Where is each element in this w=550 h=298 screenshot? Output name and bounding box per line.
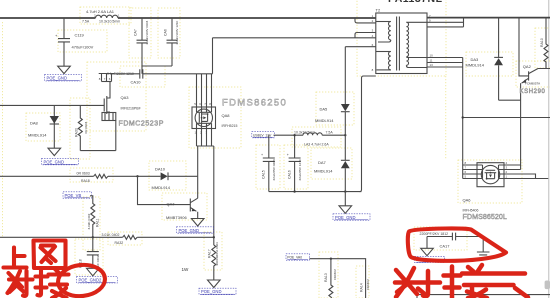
capacitor CA7 [134, 18, 150, 66]
svg-text:POE_VA0: POE_VA0 [287, 256, 302, 260]
wire transformer pin2 stub [355, 18, 376, 23]
wire bottom sheet edge [417, 295, 550, 298]
svg-text:22uF/25V 1210: 22uF/25V 1210 [298, 159, 302, 180]
svg-text:IRFH5215: IRFH5215 [222, 124, 238, 128]
wire QA8 source to RA17 [213, 146, 215, 245]
wire main top rail [0, 17, 96, 19]
wire CA7 CA6 join [142, 66, 172, 74]
resistor RA13 [324, 259, 337, 298]
region outline left dashed divider [2, 22, 4, 238]
svg-text:CA15: CA15 [262, 170, 266, 179]
diode DA3 box [466, 52, 513, 76]
svg-text:4.7uH 2.6A LA1: 4.7uH 2.6A LA1 [86, 9, 115, 14]
ground POE_GND under CA17 [415, 237, 445, 263]
wire left input rail [0, 104, 104, 106]
wire transformer pin8 return [360, 76, 376, 192]
capacitor CA7 box [129, 8, 151, 58]
transistor QA3 box [87, 62, 146, 131]
wire QA8 source to rail [197, 146, 199, 176]
wire USBLV to LA3 [274, 134, 304, 136]
svg-text:C119: C119 [75, 32, 85, 37]
svg-text:KSH290: KSH290 [520, 89, 546, 95]
svg-text:RA33: RA33 [75, 128, 79, 137]
red annotation char dui small [8, 271, 33, 296]
svg-text:CA7: CA7 [134, 29, 138, 36]
svg-text:22uF/25V 0603: 22uF/25V 0603 [272, 159, 276, 180]
wire LA3 to DA line [322, 134, 345, 136]
capacitor CA18 [79, 237, 101, 268]
resistor RA17 box [204, 232, 222, 270]
svg-text:POE_VB: POE_VB [65, 193, 82, 198]
wire RA18 rail [0, 175, 94, 177]
svg-text:DA7: DA7 [318, 160, 327, 165]
diode DA10 box [149, 161, 186, 190]
region outline secondary divider [445, 76, 447, 159]
svg-text:0R 0603: 0R 0603 [84, 122, 88, 134]
capacitor CA16 box [284, 145, 308, 189]
svg-text:9KOHM/1% 0603: 9KOHM/1% 0603 [215, 242, 219, 266]
diode DA5 [315, 47, 350, 123]
wire DA5 to DA7 [344, 112, 346, 161]
capacitor CA10 [107, 69, 143, 84]
page border right [545, 0, 550, 298]
resistor RA18 [77, 172, 108, 184]
region outline transformer block [357, 0, 446, 76]
resistor RA13 box [319, 252, 338, 298]
diode DA3 [466, 18, 504, 101]
svg-text:3.09K 0402: 3.09K 0402 [87, 213, 91, 229]
resistor RA33 [75, 105, 89, 150]
svg-text:POE_GND: POE_GND [44, 159, 64, 164]
ground POE_GND under DA7 [333, 206, 370, 220]
red annotation char dui big [395, 268, 440, 297]
resistor RA14 [360, 279, 371, 292]
svg-text:1W: 1W [182, 267, 190, 272]
red annotation char jie small [36, 269, 69, 298]
wire mid rail right [463, 117, 550, 119]
node POE_VB [63, 192, 92, 198]
transistor QA8 box [189, 87, 241, 148]
resistor RA11 [87, 196, 100, 238]
wire top right rail [427, 17, 550, 19]
capacitor CA15 box [256, 145, 280, 189]
svg-text:IRF6216PBF: IRF6216PBF [121, 107, 141, 111]
svg-text:DA3: DA3 [471, 57, 480, 62]
svg-text:PA1137NL: PA1137NL [388, 0, 443, 5]
svg-text:RA32: RA32 [115, 241, 124, 245]
svg-text:0R0402: 0R0402 [366, 279, 370, 290]
transistor QA7 box [162, 193, 207, 220]
svg-text:QA6: QA6 [463, 198, 472, 203]
svg-text:QA7: QA7 [167, 201, 176, 206]
svg-text:10.3x10.5mm: 10.3x10.5mm [99, 20, 120, 24]
transistor QA6 [463, 161, 549, 212]
capacitor CA6 [164, 18, 180, 66]
svg-text:QA3: QA3 [121, 95, 130, 100]
wire POE_VA0 [310, 259, 366, 298]
red annotation bubble right [408, 228, 506, 260]
svg-text:7.5A: 7.5A [82, 20, 90, 24]
resistor RA10 box [535, 28, 550, 68]
svg-text:CA16: CA16 [288, 170, 292, 179]
red annotation ellipse left [57, 263, 107, 298]
svg-text:10.3x10.5mm: 10.3x10.5mm [294, 131, 315, 135]
svg-text:470uF/100V: 470uF/100V [72, 45, 94, 50]
wire CA15 CA16 bottom rail [269, 191, 362, 193]
svg-text:DA10: DA10 [155, 166, 166, 171]
inductor LA1 [82, 9, 120, 24]
wire bottom rail [0, 236, 123, 238]
ground POE_GND under QA7 [177, 219, 214, 234]
wire main top rail right [118, 17, 376, 19]
resistor RA32 box [108, 232, 142, 245]
inductor LA3 box [292, 127, 341, 147]
resistor RA32 [102, 233, 138, 245]
svg-text:7.5A: 7.5A [326, 131, 334, 135]
diode DA5 box [316, 92, 354, 125]
resistor RA14 box [356, 266, 369, 298]
svg-text:POE_GND: POE_GND [179, 228, 199, 233]
wire RA32 to RA17 line [137, 236, 214, 238]
transistor QA6 box [458, 160, 522, 203]
ground POE_GND under C119 [45, 66, 82, 81]
transformer T2 [372, 8, 434, 74]
svg-text:RA14: RA14 [360, 283, 364, 292]
svg-text:POE_GND2: POE_GND2 [79, 278, 102, 283]
svg-text:0R0402: 0R0402 [333, 269, 337, 280]
svg-text:FCM905TA: FCM905TA [525, 81, 540, 85]
capacitor C119 [55, 18, 94, 66]
diode DA10 [152, 166, 198, 190]
svg-text:FDMS86250: FDMS86250 [222, 98, 287, 109]
red annotation stray stroke [515, 288, 528, 298]
svg-text:POE_GND: POE_GND [47, 76, 67, 81]
wire DA3 to QA2 emitter [499, 99, 521, 101]
ground POE_GND2 under CA18 [77, 268, 118, 283]
svg-text:2.2uF/100V 0603: 2.2uF/100V 0603 [145, 20, 149, 44]
svg-text:+: + [261, 153, 263, 157]
red annotation char shang [4, 248, 27, 268]
node USBLV_12V [252, 132, 274, 138]
diode DA8 box [26, 113, 60, 141]
capacitor CA16 [287, 135, 302, 191]
ground earth right of CA17 [477, 252, 490, 258]
svg-text:CA6: CA6 [164, 29, 168, 36]
capacitor CA17 [420, 232, 484, 252]
wire pins 7 9 jog [427, 18, 464, 27]
wire gate drive rail with CA10 [115, 73, 140, 75]
svg-text:RA11: RA11 [96, 218, 100, 227]
svg-text:CA17: CA17 [440, 244, 451, 249]
resistor RA17 [208, 242, 220, 280]
wire secondary bus down [462, 58, 464, 179]
svg-text:FDMC2523P: FDMC2523P [119, 121, 164, 128]
svg-text:MMBT3906: MMBT3906 [166, 215, 187, 220]
svg-text:2.2uF/100V 1210: 2.2uF/100V 1210 [175, 20, 179, 44]
capacitor CA17 box [414, 227, 467, 250]
svg-text:QA8: QA8 [222, 113, 231, 118]
inductor LA3 [294, 131, 333, 147]
svg-text:RA17: RA17 [208, 249, 212, 258]
resistor RA18 box [70, 168, 113, 182]
red annotation char jie big [444, 265, 526, 298]
capacitor CA10 box [120, 66, 165, 87]
svg-text:MMDL914: MMDL914 [315, 118, 334, 123]
red annotation char tu [34, 241, 66, 269]
transistor QA2 [519, 18, 550, 170]
inductor LA1 box [80, 7, 131, 24]
svg-text:RA13: RA13 [324, 273, 328, 282]
svg-text:MMDL914: MMDL914 [466, 63, 485, 68]
transistor QA3 [99, 74, 141, 151]
svg-text:RA18: RA18 [81, 179, 90, 183]
wire CA10 to QA8 [143, 73, 213, 75]
transistor QA7 [138, 176, 198, 220]
diode DA7 box [311, 148, 352, 179]
ground POE_GND under DA8 [42, 148, 79, 165]
ground POE_GND under RA17 [199, 280, 236, 295]
svg-text:QA2: QA2 [523, 64, 532, 69]
svg-text:2200PF/2KV 1812: 2200PF/2KV 1812 [420, 232, 449, 236]
diode DA8 [28, 105, 59, 148]
capacitor CA6 box [158, 8, 180, 58]
diode DA7 [314, 160, 350, 206]
svg-text:MMDL914: MMDL914 [314, 169, 333, 174]
wire transformer pin3 stub [355, 33, 376, 38]
svg-text:POE_GND: POE_GND [335, 215, 355, 220]
svg-text:T2: T2 [376, 8, 381, 13]
svg-text:0R 0603: 0R 0603 [77, 172, 90, 176]
wire transformer pin6 [345, 46, 376, 48]
svg-text:DA5: DA5 [320, 107, 329, 112]
svg-text:+: + [287, 153, 289, 157]
wire RA33 to QA3 source [80, 150, 116, 152]
svg-text:DA8: DA8 [30, 121, 39, 126]
capacitor CA18 box [75, 239, 103, 275]
wire pins 10 11 13 [427, 58, 463, 68]
svg-text:3.01K 0402: 3.01K 0402 [102, 233, 120, 237]
transistor QA2 box [516, 61, 550, 87]
resistor RA11 box [83, 197, 100, 250]
capacitor C119 box [58, 30, 107, 52]
svg-text:CA10: CA10 [131, 79, 142, 84]
svg-text:MMDL914: MMDL914 [28, 133, 47, 138]
svg-text:POE_GND: POE_GND [201, 289, 221, 294]
svg-text:LA3 4.7uH 2.6A: LA3 4.7uH 2.6A [304, 143, 329, 147]
svg-text:MMDL914: MMDL914 [152, 185, 171, 190]
capacitor CA15 [261, 135, 276, 191]
svg-text:FDMS86520L: FDMS86520L [463, 212, 507, 221]
resistor RA10 [540, 18, 548, 69]
wire QA8 drain rail [213, 38, 376, 74]
wire RA18 to DA10 [108, 175, 160, 177]
node POE_VA0 [286, 254, 310, 260]
resistor RA33 box [70, 98, 90, 159]
transistor QA8 [192, 74, 238, 146]
svg-text:RA10: RA10 [540, 38, 544, 47]
